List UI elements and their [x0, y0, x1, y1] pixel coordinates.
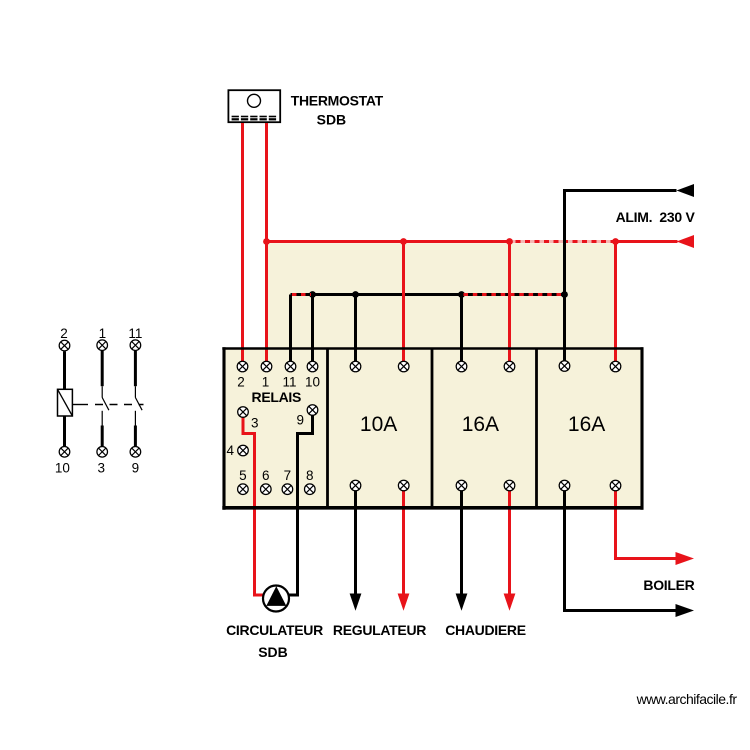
- wire red bus down to 16A#2 right terminal: [614, 242, 617, 362]
- svg-text:8: 8: [306, 468, 314, 483]
- ALIM 230V red supply arrow head: [677, 235, 695, 248]
- overlap dashes on black bus (x 291-311): [292, 293, 311, 296]
- relay module terminal 9: [307, 405, 318, 416]
- overlap dashes on black bus (x 462-563): [464, 293, 563, 296]
- overlap dashes on red bus (x 510-614): [511, 240, 614, 243]
- relay module terminal 6: [261, 484, 272, 495]
- svg-text:CIRCULATEUR: CIRCULATEUR: [226, 622, 323, 638]
- relay module terminal 2: [237, 361, 248, 372]
- svg-text:www.archifacile.fr: www.archifacile.fr: [636, 691, 738, 707]
- wire red relay terminal 3 to circulator: [243, 417, 264, 596]
- relay module terminal 11: [285, 361, 296, 372]
- svg-text:11: 11: [128, 326, 142, 341]
- circulator pump symbol circle: [263, 586, 289, 612]
- relay module terminal 5: [238, 484, 249, 495]
- junction dot black bus at x=356: [352, 291, 359, 298]
- breaker 16A#1 top right terminal: [504, 361, 515, 372]
- breaker 16A#1 bottom left terminal: [456, 480, 467, 491]
- arrow head regulateur red: [398, 594, 410, 611]
- thermostat TH body: [228, 90, 280, 122]
- svg-text:10: 10: [305, 374, 320, 389]
- svg-text:ALIM. 230 V: ALIM. 230 V: [616, 209, 696, 225]
- left relay schematic: terminal 2: [59, 340, 70, 351]
- svg-text:BOILER: BOILER: [643, 577, 694, 593]
- left relay schematic: terminal 9: [130, 447, 141, 458]
- junction dot black bus at x=461: [458, 291, 465, 298]
- svg-text:16A: 16A: [568, 413, 605, 436]
- svg-text:6: 6: [262, 468, 270, 483]
- svg-text:RELAIS: RELAIS: [252, 389, 302, 405]
- arrow head chaudiere red: [504, 594, 516, 611]
- junction dot black bus at x=564: [561, 291, 568, 298]
- wire 16A#1 right bottom terminal down (chaudiere red): [508, 491, 511, 596]
- distribution panel body fill: [224, 348, 643, 508]
- svg-text:CHAUDIERE: CHAUDIERE: [445, 622, 526, 638]
- wire black bus up and right to ALIM black arrow: [565, 191, 677, 362]
- breaker 10A top right terminal: [398, 361, 409, 372]
- svg-text:4: 4: [227, 443, 235, 458]
- relay coil K1 diagonal: [58, 389, 73, 416]
- wire 16A#2 right bottom terminal to boiler red: [616, 491, 678, 559]
- svg-text:2: 2: [60, 326, 68, 341]
- junction dot red bus at thermostat wire: [263, 238, 270, 245]
- contact 11-9 thin lower stem: [134, 411, 136, 426]
- wire red from thermostat to relay terminal 2: [241, 123, 244, 361]
- contact 1-3 bottom lead: [101, 426, 104, 447]
- wire red bus down to 16A#1 right terminal: [508, 242, 511, 362]
- contact 1-3 thin lower stem: [101, 411, 103, 426]
- arrow head boiler black: [676, 604, 695, 617]
- svg-text:10A: 10A: [360, 413, 397, 436]
- svg-text:7: 7: [284, 468, 292, 483]
- breaker 16A#2 top right terminal: [610, 361, 621, 372]
- arrow head regulateur black: [350, 594, 362, 611]
- left relay schematic: terminal 3: [97, 447, 108, 458]
- breaker 16A#2 top left terminal: [559, 361, 570, 372]
- relay module terminal 1: [261, 361, 272, 372]
- relay module terminal 4: [238, 445, 249, 456]
- mechanical link dashed line coil to contacts: [72, 404, 88, 406]
- left relay schematic: terminal 11: [130, 340, 141, 351]
- distribution panel outline left: [222, 347, 225, 509]
- wire 10A right bottom terminal down (regulateur red): [402, 491, 405, 596]
- red phase bus wire (y=242): [267, 240, 678, 243]
- breaker 10A bottom right terminal: [398, 480, 409, 491]
- breaker 10A bottom left terminal: [350, 480, 361, 491]
- thermostat terminal strip dashes: [232, 116, 276, 121]
- svg-text:3: 3: [251, 415, 259, 430]
- relay module terminal 10: [307, 361, 318, 372]
- wire 16A#1 left bottom terminal down (chaudiere black): [460, 491, 463, 596]
- svg-text:9: 9: [132, 461, 140, 476]
- svg-text:16A: 16A: [462, 413, 499, 436]
- contact 11-9 bottom lead: [134, 426, 137, 447]
- svg-text:REGULATEUR: REGULATEUR: [333, 622, 426, 638]
- wire 16A#2 left bottom terminal to boiler black: [565, 491, 678, 611]
- svg-text:10: 10: [55, 461, 70, 476]
- svg-text:1: 1: [262, 374, 270, 389]
- breaker 16A#2 bottom left terminal: [559, 480, 570, 491]
- wire red from thermostat to relay terminal 1: [265, 123, 268, 361]
- svg-text:1: 1: [99, 326, 107, 341]
- contact 11-9 top lead: [134, 351, 137, 386]
- panel divider relais/10A: [326, 348, 329, 508]
- wire black bus down to 10A left terminal: [354, 295, 357, 362]
- junction dot red bus at x=509: [506, 238, 513, 245]
- contact 11-9 switch blade: [135, 398, 142, 411]
- left relay schematic: terminal 1: [97, 340, 108, 351]
- svg-text:9: 9: [297, 413, 305, 428]
- wire black bus down to 16A#1 left terminal: [460, 295, 463, 362]
- contact 11-9 thin upper stem: [134, 386, 136, 397]
- background shaded zone above distribution panel: [268, 243, 614, 349]
- black neutral bus wire (y=294): [291, 293, 565, 296]
- distribution panel outline bottom: [222, 506, 643, 510]
- svg-text:2: 2: [237, 374, 245, 389]
- svg-text:5: 5: [239, 468, 247, 483]
- svg-text:11: 11: [282, 374, 296, 389]
- junction dot black bus at x=312: [309, 291, 316, 298]
- wire black bus down to relay terminal 10: [311, 295, 314, 362]
- svg-text:SDB: SDB: [258, 644, 288, 660]
- wire coil top lead: [63, 351, 66, 389]
- distribution panel outline right: [640, 347, 643, 509]
- relay module terminal 3: [238, 407, 249, 418]
- circulator pump triangle: [266, 586, 286, 606]
- svg-text:3: 3: [98, 461, 106, 476]
- arrow head chaudiere black: [456, 594, 468, 611]
- relay coil K1 box: [58, 389, 73, 416]
- wire from terminal 11 up to black bus: [289, 295, 292, 362]
- junction dot red bus at x=404: [400, 238, 407, 245]
- contact 1-3 top lead: [101, 351, 104, 386]
- relay module terminal 8: [305, 484, 316, 495]
- distribution panel outline top: [222, 347, 643, 349]
- panel divider 10A/16A: [431, 348, 434, 508]
- svg-text:SDB: SDB: [317, 111, 347, 127]
- ALIM 230V black supply arrow head: [677, 184, 695, 197]
- wire red bus down to 10A right terminal: [402, 242, 405, 362]
- contact 1-3 switch blade: [102, 398, 109, 411]
- contact 1-3 thin upper stem: [101, 386, 103, 397]
- wire 10A left bottom terminal down (regulateur black): [354, 491, 357, 596]
- svg-text:THERMOSTAT: THERMOSTAT: [291, 92, 384, 108]
- thermostat dial circle: [248, 94, 261, 107]
- wire black relay terminal 9 to circulator: [289, 415, 313, 596]
- breaker 10A top left terminal: [350, 361, 361, 372]
- arrow head boiler red: [676, 552, 695, 565]
- junction dot red bus at x=615: [612, 238, 619, 245]
- panel divider 16A/16A: [535, 348, 538, 508]
- left relay schematic: terminal 10: [59, 447, 70, 458]
- breaker 16A#1 top left terminal: [456, 361, 467, 372]
- relay module terminal 7: [282, 484, 293, 495]
- wire coil bottom lead: [63, 416, 66, 446]
- breaker 16A#2 bottom right terminal: [610, 480, 621, 491]
- breaker 16A#1 bottom right terminal: [504, 480, 515, 491]
